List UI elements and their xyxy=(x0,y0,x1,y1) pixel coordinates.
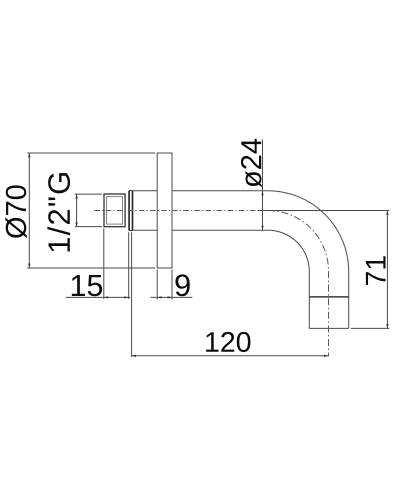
label 1/2G xyxy=(47,173,70,251)
arrow Ø70 top xyxy=(28,153,30,157)
dim Ø70 extension top xyxy=(27,152,155,154)
arrow 120 right xyxy=(324,355,328,357)
dim 1/2G extension top xyxy=(75,193,102,195)
label o24 xyxy=(241,139,262,188)
spout bend outer arc xyxy=(268,191,349,272)
arrow Ø70 bottom xyxy=(28,264,30,268)
dim Ø24 line xyxy=(262,140,264,231)
dim 1/2G line xyxy=(76,194,78,227)
wall flange (side view, 9mm plate) xyxy=(157,153,172,268)
threaded nipple 1/2"G outer xyxy=(104,194,125,227)
centerline bend arc (dash-dot) xyxy=(268,211,329,272)
dim 120 line xyxy=(132,355,329,357)
dim 15 extension right xyxy=(128,232,130,299)
arrow 15 left xyxy=(104,296,108,298)
arrow 71 top xyxy=(386,211,388,215)
centerline horizontal (dash-dot) xyxy=(95,210,258,212)
arrow 1/2G bottom xyxy=(75,222,77,226)
aerator joint line xyxy=(309,296,348,298)
arrow 71 bottom xyxy=(386,324,388,328)
spout outlet bottom edge xyxy=(309,327,348,329)
label 15 xyxy=(72,275,102,296)
arrow Ø24 bottom xyxy=(261,226,263,230)
dim 15 extension left xyxy=(103,228,105,299)
washer top/bottom edges xyxy=(129,191,132,231)
dim 9 line xyxy=(151,296,193,298)
label 120 xyxy=(206,332,250,352)
washer collar xyxy=(129,191,132,231)
dim Ø70 extension bottom xyxy=(27,267,155,269)
dim 71 extension bottom xyxy=(351,327,390,329)
dim 1/2G extension bottom xyxy=(75,226,102,228)
centerline solid extension to 71 dim xyxy=(258,210,390,212)
arrow 9 right xyxy=(168,296,172,298)
dim 9 extension right xyxy=(171,270,173,300)
label 9 xyxy=(175,274,189,296)
dim 9 extension left xyxy=(156,270,158,300)
arrow 15 right xyxy=(124,296,128,298)
dim 71 line xyxy=(386,211,388,329)
spout tube upper line (horizontal run) xyxy=(133,190,268,192)
dim Ø70 line xyxy=(28,153,30,268)
threaded nipple inner thread line xyxy=(107,197,123,225)
spout vertical outlet left edge xyxy=(308,272,310,329)
arrow 1/2G top xyxy=(75,194,77,198)
arrow Ø24 top xyxy=(261,191,263,195)
dim 15 line xyxy=(66,296,130,298)
spout bend inner arc xyxy=(268,230,309,271)
centerline vertical outlet (dash-dot) xyxy=(328,271,330,356)
label O70 xyxy=(5,185,27,238)
label 71 xyxy=(366,256,386,285)
spout vertical outlet right edge xyxy=(348,272,350,329)
arrow 120 left xyxy=(132,355,136,357)
dim 120 extension left xyxy=(131,232,133,357)
spout tube lower line (horizontal run) xyxy=(133,229,268,231)
arrow 9 left xyxy=(157,296,161,298)
